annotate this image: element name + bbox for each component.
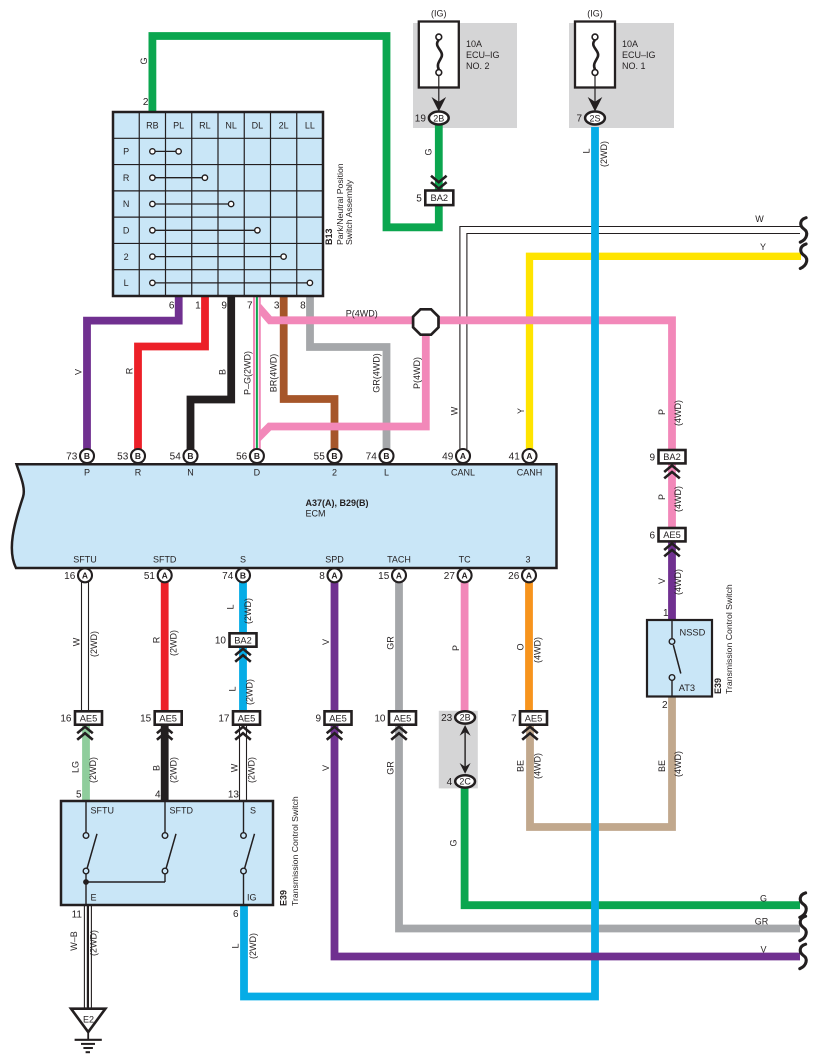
svg-text:BA2: BA2 <box>431 193 449 203</box>
connector 4 2C <box>447 775 475 788</box>
svg-text:GR: GR <box>386 761 396 775</box>
svg-text:W: W <box>450 406 460 415</box>
svg-text:IG: IG <box>247 893 257 903</box>
svg-text:V: V <box>657 578 667 584</box>
svg-text:74: 74 <box>222 571 234 582</box>
chevron below AE5 10 <box>391 727 407 740</box>
B13 table header and row labels <box>123 120 315 288</box>
ECM top pin 53(B) <box>117 449 145 463</box>
svg-text:53: 53 <box>117 452 129 463</box>
ground E2 <box>71 1009 105 1032</box>
wire P-G(2WD) from B13 pin 7 to ECM pin D <box>253 296 261 449</box>
fuse box shading for fuse ECU-IG NO.1 <box>569 23 674 128</box>
svg-text:NSSD: NSSD <box>680 628 706 638</box>
wire GR from AE5 10 to right edge <box>399 725 800 929</box>
svg-text:ECU–IG: ECU–IG <box>466 50 500 60</box>
svg-text:CANH: CANH <box>517 468 543 478</box>
svg-text:GR(4WD): GR(4WD) <box>372 353 382 393</box>
svg-text:2: 2 <box>332 468 337 478</box>
svg-text:R: R <box>152 636 162 643</box>
B13 switch contacts <box>150 149 313 286</box>
connector 17 AE5 <box>218 711 260 724</box>
svg-text:N: N <box>187 468 194 478</box>
wire G from connector 2C to right edge <box>465 787 800 906</box>
ECM top pin 49(A) <box>442 449 470 463</box>
svg-text:3: 3 <box>274 301 280 312</box>
svg-text:S: S <box>240 555 246 565</box>
svg-text:(2WD): (2WD) <box>248 933 258 959</box>
svg-text:RL: RL <box>199 120 211 130</box>
wire W(2WD) from ECM SFTU to AE5 16 <box>82 582 89 712</box>
wire P(4WD) from octagon down to P-G wire <box>257 333 425 439</box>
svg-text:49: 49 <box>442 452 454 463</box>
connector 6 AE5 right <box>649 528 685 541</box>
continuation mark G <box>800 893 806 918</box>
svg-text:(2WD): (2WD) <box>243 598 253 624</box>
transmission control switch E39 left body <box>61 801 273 905</box>
chevron below AE5 15 <box>157 727 173 740</box>
connector 2S below fuse ECU-IG NO.1 <box>577 112 605 125</box>
ECM bottom pin 15(A) <box>378 568 406 582</box>
svg-text:55: 55 <box>314 452 326 463</box>
ECM bottom pin 51(A) <box>144 568 172 582</box>
svg-text:BE: BE <box>657 760 667 772</box>
svg-text:W: W <box>230 763 240 772</box>
svg-text:SFTU: SFTU <box>73 555 97 565</box>
svg-text:(4WD): (4WD) <box>673 400 683 426</box>
svg-text:9: 9 <box>221 301 227 312</box>
transmission control switch E39 right body <box>647 620 712 697</box>
svg-text:(2WD): (2WD) <box>599 141 609 167</box>
wire B(2WD) from AE5 15 to switch pin 4 <box>161 725 169 801</box>
connector 16 AE5 <box>60 711 102 724</box>
svg-text:6: 6 <box>233 909 239 920</box>
svg-text:56: 56 <box>236 452 248 463</box>
ECM bottom pin names <box>73 555 530 565</box>
svg-text:10: 10 <box>374 714 386 725</box>
svg-text:73: 73 <box>66 452 78 463</box>
wire L(2WD) from fuse 2S to switch IG pin 6 <box>244 127 595 997</box>
svg-text:2L: 2L <box>279 120 289 130</box>
svg-text:2B: 2B <box>433 113 444 123</box>
connector 15 AE5 <box>140 711 182 724</box>
wire L(2WD) from ECM S to BA2 10 <box>239 582 247 633</box>
svg-text:(2WD): (2WD) <box>169 630 179 656</box>
wire L(2WD) from BA2 10 to AE5 17 <box>239 647 247 712</box>
wire R(2WD) from ECM SFTD to AE5 15 <box>161 582 169 712</box>
svg-text:A37(A), B29(B): A37(A), B29(B) <box>306 498 369 508</box>
svg-text:Y: Y <box>760 242 766 252</box>
svg-text:G: G <box>760 893 767 903</box>
wire V from B13 pin 6 to ECM pin P <box>87 296 179 449</box>
connector 7 AE5 <box>511 711 547 724</box>
svg-text:4: 4 <box>155 790 161 801</box>
wire O(4WD) from ECM 3 to AE5 7 <box>525 582 533 712</box>
svg-text:B: B <box>135 451 141 461</box>
svg-text:AE5: AE5 <box>238 713 256 723</box>
fuse ECU-IG NO.2 body <box>419 22 459 88</box>
svg-text:B: B <box>331 451 337 461</box>
svg-text:10A: 10A <box>622 39 638 49</box>
chevron below AE5 17 <box>235 727 251 740</box>
wire BR(4WD) from B13 pin 3 to ECM pin 2 <box>284 296 335 449</box>
svg-text:E39: E39 <box>713 678 723 694</box>
connector 5 BA2 <box>416 191 453 206</box>
wire P(4WD) between BA2 and AE5 right column <box>668 462 676 529</box>
svg-text:D: D <box>254 468 261 478</box>
svg-text:B13: B13 <box>324 228 334 245</box>
connector 10 BA2 <box>215 633 257 646</box>
svg-text:NO. 1: NO. 1 <box>622 61 646 71</box>
svg-text:A: A <box>526 571 532 581</box>
svg-text:10: 10 <box>215 636 227 647</box>
svg-text:E: E <box>91 893 97 903</box>
svg-text:L: L <box>228 686 238 691</box>
svg-text:(IG): (IG) <box>431 9 447 19</box>
svg-text:7: 7 <box>247 301 253 312</box>
ECM A37(A) B29(B) body <box>12 464 557 568</box>
svg-text:W: W <box>72 637 82 646</box>
svg-text:L: L <box>582 148 592 153</box>
svg-text:S: S <box>250 806 256 816</box>
svg-text:6: 6 <box>649 530 655 541</box>
svg-text:AE5: AE5 <box>394 713 412 723</box>
continuation mark W <box>800 218 806 243</box>
svg-text:AT3: AT3 <box>679 683 695 693</box>
svg-text:P–G(2WD): P–G(2WD) <box>243 351 253 395</box>
continuation mark GR <box>800 916 806 941</box>
svg-text:(IG): (IG) <box>587 9 603 19</box>
fuse ECU-IG NO.1 element <box>592 34 598 75</box>
svg-text:BR(4WD): BR(4WD) <box>269 354 279 393</box>
ECM top pin 41(A) <box>509 449 537 463</box>
wire GR from ECM TACH to AE5 10 <box>395 582 403 712</box>
svg-text:P(4WD): P(4WD) <box>412 357 422 389</box>
svg-text:AE5: AE5 <box>525 713 543 723</box>
svg-text:P(4WD): P(4WD) <box>346 309 378 319</box>
svg-text:41: 41 <box>509 452 521 463</box>
wire V from ECM SPD to AE5 9 <box>331 582 339 712</box>
svg-text:15: 15 <box>378 571 390 582</box>
svg-text:8: 8 <box>319 571 325 582</box>
arrows between 2B and 2C <box>460 725 471 774</box>
svg-text:AE5: AE5 <box>80 713 98 723</box>
svg-text:N: N <box>123 199 130 209</box>
svg-text:6: 6 <box>169 301 175 312</box>
svg-text:L: L <box>124 278 129 288</box>
svg-text:W: W <box>755 214 764 224</box>
connector 9 BA2 right <box>649 450 685 463</box>
ground hatching <box>75 1032 102 1052</box>
svg-text:17: 17 <box>218 714 230 725</box>
svg-text:(4WD): (4WD) <box>533 753 543 779</box>
wire P(4WD) from P-G wire to octagon and to connector BA2 9 <box>258 307 672 451</box>
svg-text:SPD: SPD <box>325 555 344 565</box>
svg-text:2: 2 <box>662 700 668 711</box>
svg-text:A: A <box>82 571 88 581</box>
wire BE(4WD) joining AE5 7 and switch pin 2 <box>530 697 672 828</box>
svg-text:B: B <box>187 451 193 461</box>
svg-text:D: D <box>123 226 130 236</box>
svg-text:1: 1 <box>663 608 669 619</box>
svg-text:P: P <box>451 645 461 651</box>
svg-text:V: V <box>74 369 84 375</box>
svg-text:7: 7 <box>511 714 517 725</box>
svg-text:NL: NL <box>225 120 237 130</box>
chevron above BA2 5 <box>431 176 447 189</box>
ECM top pin 74(B) <box>366 449 394 463</box>
svg-text:BE: BE <box>516 760 526 772</box>
connector 10 AE5 <box>374 711 416 724</box>
wire G from fuse 2B to connector BA2 <box>435 125 443 191</box>
svg-text:9: 9 <box>649 452 655 463</box>
svg-text:ECU–IG: ECU–IG <box>622 50 656 60</box>
svg-text:5: 5 <box>76 790 82 801</box>
svg-text:BA2: BA2 <box>663 452 681 462</box>
svg-text:AE5: AE5 <box>159 713 177 723</box>
svg-text:(2WD): (2WD) <box>89 631 99 657</box>
svg-text:27: 27 <box>444 571 456 582</box>
svg-text:G: G <box>424 148 434 155</box>
svg-text:74: 74 <box>366 452 378 463</box>
svg-text:ECM: ECM <box>306 509 326 519</box>
svg-text:DL: DL <box>252 120 264 130</box>
svg-text:8: 8 <box>300 301 306 312</box>
fuse ECU-IG NO.1 rating label <box>622 39 656 71</box>
fuse ECU-IG NO.1 body <box>575 22 615 88</box>
continuation mark V <box>800 944 806 969</box>
chevron below AE5 9 <box>327 727 343 740</box>
svg-text:RB: RB <box>146 120 159 130</box>
svg-text:V: V <box>321 765 331 771</box>
svg-text:LL: LL <box>305 120 315 130</box>
svg-text:G: G <box>139 57 149 64</box>
connector shading for 2B-2C junction <box>439 711 478 789</box>
svg-text:2: 2 <box>143 97 149 108</box>
wire R from B13 pin 1 to ECM pin R <box>138 296 205 449</box>
fuse ECU-IG NO.2 element <box>436 34 442 75</box>
svg-text:E39: E39 <box>279 890 289 906</box>
svg-text:(4WD): (4WD) <box>673 751 683 777</box>
svg-text:B: B <box>218 369 228 375</box>
svg-text:2S: 2S <box>589 113 600 123</box>
wire V(4WD) from AE5 to transmission control switch pin 1 <box>668 540 676 620</box>
svg-text:A: A <box>396 571 402 581</box>
svg-text:(4WD): (4WD) <box>673 569 683 595</box>
svg-text:Switch Assembly: Switch Assembly <box>344 179 354 245</box>
svg-text:GR: GR <box>386 636 396 650</box>
svg-text:R: R <box>123 173 130 183</box>
svg-text:7: 7 <box>577 114 583 125</box>
svg-text:SFTD: SFTD <box>153 555 177 565</box>
svg-text:O: O <box>516 643 526 650</box>
svg-text:(2WD): (2WD) <box>245 679 255 705</box>
svg-text:GR: GR <box>755 917 769 927</box>
fuse ECU-IG NO.1 lead and arrow <box>588 76 603 112</box>
svg-text:TACH: TACH <box>387 555 411 565</box>
svg-text:AE5: AE5 <box>329 713 347 723</box>
ECM top pin names <box>84 468 542 478</box>
ECM bottom pin 74(B) <box>222 568 250 582</box>
ECM top pin 56(B) <box>236 449 264 463</box>
svg-text:23: 23 <box>441 713 453 724</box>
svg-text:54: 54 <box>170 452 182 463</box>
continuation mark Y <box>800 244 806 269</box>
chevron below AE5 7 <box>522 727 538 740</box>
svg-text:A: A <box>162 571 168 581</box>
svg-text:26: 26 <box>508 571 520 582</box>
ECM top pin 55(B) <box>314 449 342 463</box>
svg-text:5: 5 <box>416 194 422 205</box>
svg-text:P: P <box>657 409 667 415</box>
svg-text:R: R <box>135 468 142 478</box>
svg-text:B: B <box>383 451 389 461</box>
fuse ECU-IG NO.2 lead and arrow <box>432 76 447 112</box>
svg-text:CANL: CANL <box>451 468 475 478</box>
svg-text:(4WD): (4WD) <box>673 486 683 512</box>
svg-text:(2WD): (2WD) <box>169 757 179 783</box>
svg-text:(2WD): (2WD) <box>89 930 99 956</box>
svg-text:16: 16 <box>60 714 72 725</box>
svg-text:51: 51 <box>144 571 156 582</box>
svg-text:(2WD): (2WD) <box>88 757 98 783</box>
svg-text:V: V <box>760 944 766 954</box>
svg-text:Transmission Control Switch: Transmission Control Switch <box>724 584 734 694</box>
ECM bottom pin 8(A) <box>319 568 341 582</box>
svg-text:B: B <box>254 451 260 461</box>
svg-text:NO. 2: NO. 2 <box>466 61 490 71</box>
svg-text:B: B <box>84 451 90 461</box>
ECM top pin 54(B) <box>170 449 198 463</box>
svg-text:A: A <box>331 571 337 581</box>
svg-text:2B: 2B <box>460 713 471 723</box>
svg-text:BA2: BA2 <box>234 635 252 645</box>
E39 right switch contact <box>669 620 681 697</box>
wire P from ECM TC to connector 2B <box>461 582 469 712</box>
svg-text:L: L <box>384 468 389 478</box>
svg-text:P: P <box>84 468 90 478</box>
svg-text:SFTU: SFTU <box>91 806 115 816</box>
svg-text:A: A <box>460 451 466 461</box>
svg-text:2: 2 <box>124 252 129 262</box>
connector 23 2B <box>441 711 475 724</box>
svg-text:1: 1 <box>195 301 201 312</box>
svg-text:(4WD): (4WD) <box>533 637 543 663</box>
svg-text:Transmission Control Switch: Transmission Control Switch <box>290 796 300 906</box>
svg-text:B: B <box>152 765 162 771</box>
svg-text:P: P <box>657 494 667 500</box>
svg-text:E2: E2 <box>83 1015 94 1025</box>
svg-text:Y: Y <box>516 408 526 414</box>
svg-text:4: 4 <box>447 777 453 788</box>
svg-text:LG: LG <box>71 761 81 773</box>
svg-text:A: A <box>526 451 532 461</box>
svg-text:2C: 2C <box>459 777 471 787</box>
svg-text:PL: PL <box>173 120 184 130</box>
connector 2B below fuse ECU-IG NO.2 <box>415 112 449 125</box>
wire W to CANL (net W) <box>460 227 800 450</box>
wire GR(4WD) from B13 pin 8 to ECM pin L <box>310 296 387 449</box>
wire B from B13 pin 9 to ECM pin N <box>191 296 232 449</box>
wire W-B(2WD) from switch pin 11 to ground E2 <box>84 905 91 1009</box>
svg-text:V: V <box>321 639 331 645</box>
chevron below AE5 6 <box>664 544 680 557</box>
E39 left switch contacts <box>83 801 254 905</box>
svg-text:L: L <box>226 604 236 609</box>
svg-text:9: 9 <box>315 714 321 725</box>
svg-text:W–B: W–B <box>69 931 79 951</box>
wire V from AE5 9 to right edge <box>335 725 801 957</box>
chevron below BA2 10 <box>235 649 251 662</box>
svg-text:19: 19 <box>415 114 427 125</box>
ECM bottom pin 16(A) <box>64 568 92 582</box>
fuse ECU-IG NO.2 rating label <box>466 39 500 71</box>
park/neutral position switch assembly B13 body <box>113 112 323 296</box>
svg-text:10A: 10A <box>466 39 482 49</box>
B13 bottom pin numbers <box>169 301 306 312</box>
svg-text:TC: TC <box>459 555 471 565</box>
chevron below AE5 16 <box>77 727 93 740</box>
ECM top pin 73(B) <box>66 449 94 463</box>
chevron below BA2 9 <box>664 466 680 479</box>
ECM bottom pin 27(A) <box>444 568 472 582</box>
connector 9 AE5 <box>315 711 351 724</box>
svg-text:R: R <box>125 367 135 374</box>
svg-text:3: 3 <box>525 555 530 565</box>
junction connector octagon <box>413 309 438 334</box>
wire G from B13 pin 2 to connector BA2 <box>152 36 438 227</box>
svg-text:P: P <box>123 147 129 157</box>
fuse box shading for fuse ECU-IG NO.2 <box>413 23 517 128</box>
wire Y to CANH (net Y) <box>530 256 802 449</box>
wire LG(2WD) from AE5 16 to switch pin 5 <box>82 725 90 801</box>
svg-text:11: 11 <box>72 910 83 921</box>
svg-text:G: G <box>449 839 459 846</box>
svg-text:B: B <box>240 571 246 581</box>
svg-text:SFTD: SFTD <box>170 806 194 816</box>
wire W(2WD) from AE5 17 to switch pin 13 <box>240 725 247 801</box>
svg-text:16: 16 <box>64 571 76 582</box>
svg-text:13: 13 <box>228 790 240 801</box>
svg-text:A: A <box>462 571 468 581</box>
svg-text:L: L <box>231 943 241 948</box>
ECM bottom pin 26(A) <box>508 568 536 582</box>
svg-text:(2WD): (2WD) <box>247 757 257 783</box>
svg-text:AE5: AE5 <box>663 530 681 540</box>
svg-text:15: 15 <box>140 714 152 725</box>
